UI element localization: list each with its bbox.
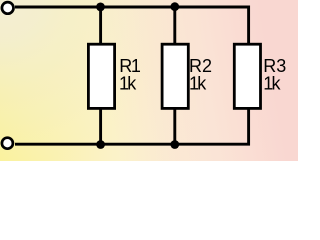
wire top bus from T1 to top-right corner down to R3 <box>15 7 249 44</box>
junction node A (top of R1) <box>96 3 105 12</box>
resistor R1 body <box>88 44 114 108</box>
svg-text:1k: 1k <box>263 73 281 93</box>
resistor R2 body <box>162 44 188 108</box>
wire R2 bottom lead <box>173 109 176 144</box>
wire R1 bottom lead <box>99 109 102 144</box>
wire R1 top lead <box>99 7 102 44</box>
terminal T1 (top-left input) <box>2 2 14 14</box>
svg-text:1k: 1k <box>119 73 137 93</box>
wire R2 top lead <box>173 7 176 44</box>
junction node C (bottom of R1) <box>96 140 105 149</box>
resistor R3 body <box>234 44 260 108</box>
junction node D (bottom of R2) <box>170 140 179 149</box>
svg-text:1k: 1k <box>189 73 207 93</box>
wire bottom bus from T2 to bottom-right corner up to R3 <box>15 109 249 144</box>
junction node B (top of R2) <box>170 2 179 11</box>
terminal T2 (bottom-left input) <box>2 138 13 149</box>
